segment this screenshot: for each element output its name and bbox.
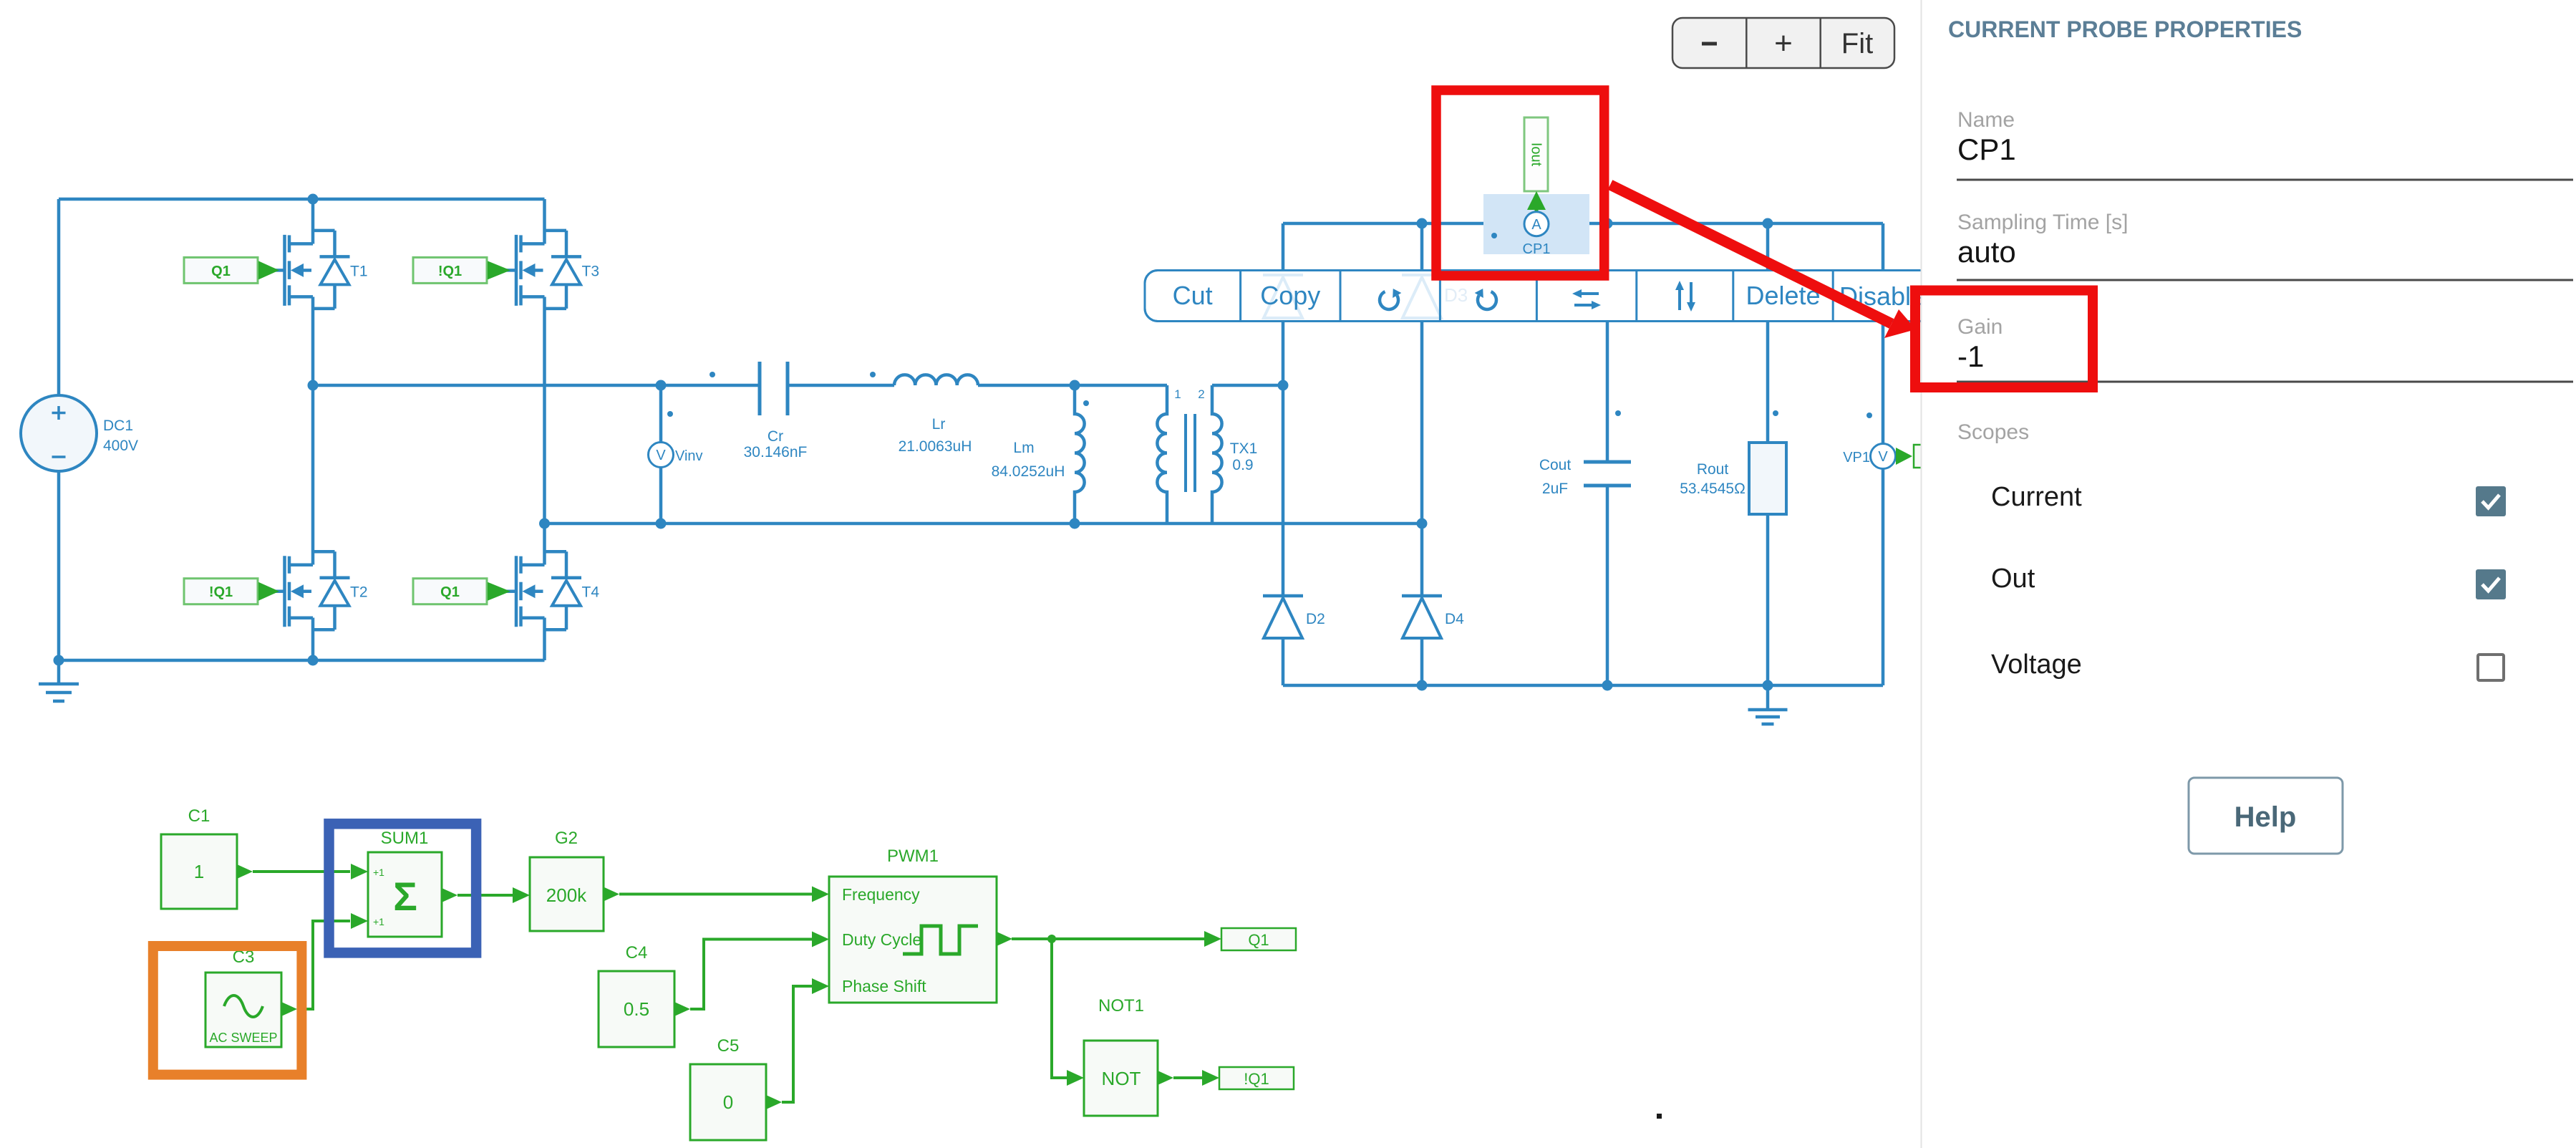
- voltage probe VP1: [1843, 444, 1895, 469]
- capacitor Cr: [760, 362, 894, 415]
- ghost diode D3 (behind toolbar): [1402, 275, 1468, 318]
- svg-text:C4: C4: [626, 943, 648, 963]
- panel background: [1921, 0, 2576, 1148]
- svg-text:!Q1: !Q1: [1244, 1070, 1269, 1088]
- constant block C5: [690, 1036, 766, 1140]
- svg-text:+: +: [1774, 26, 1793, 61]
- Help button: [2189, 778, 2343, 854]
- output label arrow !Q1: [1202, 1070, 1219, 1086]
- diode D4: [1402, 596, 1464, 638]
- separator 1: [1957, 179, 2573, 181]
- svg-text:21.0063uH: 21.0063uH: [899, 438, 972, 455]
- svg-text:Q1: Q1: [1248, 931, 1269, 949]
- svg-text:2uF: 2uF: [1542, 481, 1568, 497]
- label Cr 30.146nF: [744, 428, 808, 460]
- annotation red box around CP1: [1436, 90, 1604, 276]
- wire: bottom DC rail: [59, 659, 545, 662]
- signal label Iout: [1524, 117, 1548, 191]
- voltage probe Vinv: [649, 385, 703, 524]
- svg-text:!Q1: !Q1: [209, 584, 233, 600]
- PWM modulator input arrows: [812, 887, 829, 995]
- toolbar background: [1145, 271, 1933, 322]
- svg-text:CURRENT PROBE PROPERTIES: CURRENT PROBE PROPERTIES: [1948, 16, 2302, 42]
- svg-text:T3: T3: [582, 263, 600, 279]
- annotation blue box around SUM1: [329, 824, 477, 952]
- wire: G2 to PWM1 Frequency: [619, 893, 813, 896]
- voltage source DC1: [21, 395, 97, 471]
- output label arrow Q1: [1204, 931, 1221, 947]
- inductor Lr: [894, 375, 978, 385]
- svg-text:Scopes: Scopes: [1957, 420, 2029, 444]
- svg-text:2: 2: [1198, 387, 1204, 401]
- current probe CP1 (ammeter): [1524, 212, 1549, 236]
- block NOT1 output arrow: [1158, 1071, 1173, 1085]
- label Lm 84.0252uH: [992, 440, 1065, 480]
- svg-text:A: A: [1531, 217, 1541, 233]
- svg-text:V: V: [1878, 449, 1888, 465]
- field label Name: [1957, 108, 2015, 132]
- pin labels 1 2 of TX1: [1174, 387, 1204, 401]
- transistor T1 (MOSFET): [275, 231, 368, 309]
- gain block G2 input arrow: [513, 887, 530, 903]
- label Rout 53.4545&#937;: [1680, 461, 1745, 497]
- toolbar button Copy: [1260, 281, 1320, 310]
- svg-text:Rout: Rout: [1697, 461, 1729, 478]
- svg-text:Q1: Q1: [440, 584, 460, 600]
- output label !Q1: [1219, 1067, 1294, 1089]
- svg-text:Q1: Q1: [211, 264, 231, 279]
- svg-text:30.146nF: 30.146nF: [744, 444, 808, 460]
- scope row Current: [1991, 482, 2506, 516]
- svg-text:T4: T4: [582, 584, 600, 601]
- wire: VP1 branch: [1882, 223, 1885, 685]
- svg-text:Copy: Copy: [1260, 281, 1320, 310]
- wire: phase node A to tank top: [313, 384, 760, 387]
- transistor T3 (MOSFET): [506, 231, 599, 309]
- NOT gate input arrow: [1067, 1070, 1084, 1086]
- probe VP1 output arrow: [1896, 445, 1942, 468]
- block PWM1 output arrow: [997, 932, 1012, 946]
- svg-text:!Q1: !Q1: [438, 264, 462, 279]
- svg-text:T2: T2: [350, 584, 368, 601]
- svg-text:AC SWEEP: AC SWEEP: [209, 1031, 277, 1045]
- svg-text:NOT: NOT: [1102, 1068, 1141, 1089]
- svg-text:Duty Cycle: Duty Cycle: [842, 930, 921, 949]
- scope row Voltage: [1991, 650, 2504, 680]
- gate signal label Q1 -> T1: [184, 257, 279, 283]
- block G2 output arrow: [604, 887, 619, 902]
- svg-text:Σ: Σ: [393, 874, 417, 919]
- sum block SUM1 input arrows: [351, 864, 368, 929]
- inductor Lm: [1075, 385, 1085, 524]
- wire: rectifier leg2 lower: [1420, 640, 1424, 685]
- svg-text:CP1: CP1: [1523, 241, 1551, 257]
- svg-text:PWM1: PWM1: [887, 846, 939, 866]
- wire: rectifier leg1 upper: [1282, 223, 1285, 385]
- svg-text:Cr: Cr: [768, 428, 783, 445]
- svg-text:Vinv: Vinv: [675, 448, 703, 464]
- svg-text:53.4545Ω: 53.4545Ω: [1680, 481, 1745, 497]
- gate signal label Q1 -> T4: [413, 579, 510, 604]
- svg-text:0.9: 0.9: [1232, 457, 1253, 473]
- svg-text:0.5: 0.5: [624, 998, 649, 1020]
- toolbar frame and dividers: [1145, 271, 1933, 322]
- field label Sampling Time [s]: [1957, 211, 2128, 234]
- NOT gate NOT1: [1084, 996, 1158, 1116]
- block SUM1 output arrow: [442, 888, 457, 902]
- toolbar icon flip-vertical: [1675, 281, 1695, 312]
- wire: PWM1 to Q1 output: [1012, 937, 1205, 940]
- svg-text:Help: Help: [2234, 801, 2297, 833]
- wire: NOT1 to !Q1 output: [1173, 1076, 1204, 1079]
- wire: tank bottom rail: [545, 522, 1423, 526]
- svg-text:C5: C5: [717, 1036, 740, 1056]
- wire: C5 to PWM1 Phase Shift: [782, 986, 813, 1102]
- svg-text:Out: Out: [1991, 564, 2035, 594]
- label Cout 2uF: [1539, 457, 1572, 497]
- toolbar icon rotate-ccw: [1380, 289, 1401, 309]
- svg-text:Fit: Fit: [1841, 28, 1873, 59]
- transformer TX1 secondary winding: [1212, 385, 1222, 524]
- annotation orange box around C3: [153, 946, 302, 1075]
- section label Scopes: [1957, 420, 2029, 444]
- wire: right leg mid: [543, 297, 546, 565]
- wire: SUM1 to G2: [457, 894, 514, 897]
- svg-text:G2: G2: [555, 829, 578, 848]
- transistor T4 (MOSFET): [506, 551, 599, 630]
- zoom button group: [1672, 18, 1894, 68]
- wire: DC1 positive lead: [57, 199, 61, 395]
- polarity dots: [667, 233, 1872, 418]
- wire: left leg mid: [311, 297, 315, 565]
- wire: rectifier leg1 lower: [1282, 640, 1285, 685]
- wire: rectifier leg2 upper: [1420, 223, 1424, 524]
- AC sweep source C3: [205, 947, 281, 1047]
- wire: Rout branch: [1766, 223, 1770, 685]
- wire: left leg lower: [311, 618, 315, 661]
- block C4 output arrow: [674, 1002, 690, 1016]
- wire: C1 to SUM1: [253, 870, 350, 873]
- svg-text:Phase Shift: Phase Shift: [842, 977, 926, 995]
- wire: junction down to NOT1: [1052, 939, 1067, 1078]
- PWM modulator block PWM1: [829, 846, 997, 1003]
- selection highlight of CP1: [1483, 194, 1589, 254]
- diode D2: [1263, 596, 1325, 638]
- svg-text:1: 1: [194, 861, 204, 882]
- label DC1 400V: [103, 418, 138, 454]
- svg-text:Lm: Lm: [1013, 440, 1034, 456]
- label TX1 0.9: [1230, 440, 1258, 473]
- toolbar button Delete: [1745, 281, 1820, 310]
- svg-text:SUM1: SUM1: [381, 829, 429, 848]
- svg-text:VP1: VP1: [1843, 450, 1870, 466]
- svg-text:1: 1: [1174, 387, 1181, 401]
- gate signal label !Q1 -> T2: [184, 579, 279, 604]
- wire: DC1 negative lead: [57, 471, 61, 660]
- wire: Cout branch: [1606, 223, 1609, 685]
- wire: C3 to SUM1 lower input: [297, 921, 350, 1009]
- wire: rectifier top rail: [1283, 222, 1883, 226]
- svg-text:Cut: Cut: [1173, 281, 1213, 310]
- wire: secondary top to rectifier leg1: [1212, 384, 1283, 387]
- field value auto: [1957, 235, 2016, 269]
- field value -1: [1957, 339, 1984, 373]
- svg-text:Voltage: Voltage: [1991, 650, 2082, 680]
- gain block G2: [530, 829, 604, 931]
- block C3 output arrow: [281, 1002, 297, 1016]
- svg-text:DC1: DC1: [103, 418, 133, 434]
- ground GND (right): [1748, 685, 1788, 724]
- svg-text:auto: auto: [1957, 235, 2016, 269]
- transistor T2 (MOSFET): [275, 551, 368, 630]
- annotation red arrow to Gain: [1610, 185, 1916, 338]
- toolbar icon rotate-cw: [1475, 289, 1496, 309]
- output label Q1: [1221, 928, 1296, 950]
- wire: rectifier leg2 mid: [1420, 524, 1424, 594]
- svg-text:84.0252uH: 84.0252uH: [992, 463, 1065, 480]
- junction on PWM output wire: [1047, 935, 1056, 943]
- svg-text:NOT1: NOT1: [1098, 996, 1144, 1016]
- svg-text:T1: T1: [350, 263, 368, 279]
- field label Gain: [1957, 315, 2003, 339]
- svg-text:TX1: TX1: [1230, 440, 1258, 457]
- svg-text:Name: Name: [1957, 108, 2015, 132]
- label CP1: [1523, 241, 1551, 257]
- toolbar button Cut: [1173, 281, 1213, 310]
- resistor Rout: [1749, 443, 1786, 514]
- svg-text:CP1: CP1: [1957, 132, 2016, 166]
- wire: right leg upper: [543, 199, 546, 244]
- svg-text:D3: D3: [1444, 284, 1468, 306]
- svg-text:0: 0: [723, 1091, 733, 1113]
- separator 2: [1957, 279, 2573, 281]
- svg-text:V: V: [656, 448, 666, 463]
- svg-text:Sampling Time [s]: Sampling Time [s]: [1957, 211, 2128, 234]
- label Lr 21.0063uH: [899, 416, 972, 455]
- svg-text:Frequency: Frequency: [842, 885, 920, 904]
- scope row Out: [1991, 564, 2506, 599]
- svg-text:C1: C1: [188, 806, 210, 826]
- svg-text:Iout: Iout: [1529, 143, 1544, 167]
- gate signal label !Q1 -> T3: [413, 257, 510, 283]
- svg-text:D2: D2: [1306, 611, 1325, 627]
- wire junction dots: [54, 194, 1773, 691]
- svg-text:200k: 200k: [546, 884, 587, 906]
- svg-text:400V: 400V: [103, 438, 138, 454]
- toolbar icon flip-horizontal: [1572, 289, 1601, 309]
- wire: left leg upper: [311, 199, 315, 244]
- svg-text:Lr: Lr: [932, 416, 946, 433]
- ground GND (left): [39, 660, 79, 701]
- svg-text:Current: Current: [1991, 482, 2082, 512]
- ghost diode D1 (behind toolbar): [1263, 275, 1303, 318]
- svg-text:+1: +1: [373, 916, 384, 927]
- svg-text:D4: D4: [1445, 611, 1464, 627]
- wire: top DC rail: [59, 198, 545, 201]
- block C1 output arrow: [237, 864, 253, 879]
- svg-text:+1: +1: [373, 867, 384, 878]
- annotation red box around Gain: [1915, 291, 2093, 388]
- svg-text:-1: -1: [1957, 339, 1984, 373]
- toolbar button Disable: [1839, 281, 1925, 311]
- panel title CURRENT PROBE PROPERTIES: [1948, 16, 2302, 42]
- wire: C4 to PWM1 Duty Cycle: [690, 940, 813, 1010]
- svg-text:Cout: Cout: [1539, 457, 1572, 473]
- constant block C4: [599, 943, 674, 1047]
- transformer TX1 primary winding: [1157, 385, 1167, 524]
- field value CP1: [1957, 132, 2016, 166]
- wire: rectifier leg1 mid: [1282, 385, 1285, 594]
- wire: Lr to Lm node: [978, 384, 1167, 387]
- wire: right leg lower: [543, 618, 546, 661]
- wire: rectifier bottom rail: [1283, 684, 1883, 688]
- transformer TX1 core: [1186, 414, 1195, 492]
- svg-text:Gain: Gain: [1957, 315, 2003, 339]
- constant block C1: [161, 806, 237, 909]
- separator 3: [1957, 381, 2573, 383]
- probe output arrow (up) of CP1: [1527, 191, 1546, 217]
- sum block SUM1: [368, 829, 442, 937]
- capacitor Cout: [1584, 462, 1631, 486]
- block C5 output arrow: [766, 1095, 782, 1109]
- stray dot: [1657, 1114, 1662, 1119]
